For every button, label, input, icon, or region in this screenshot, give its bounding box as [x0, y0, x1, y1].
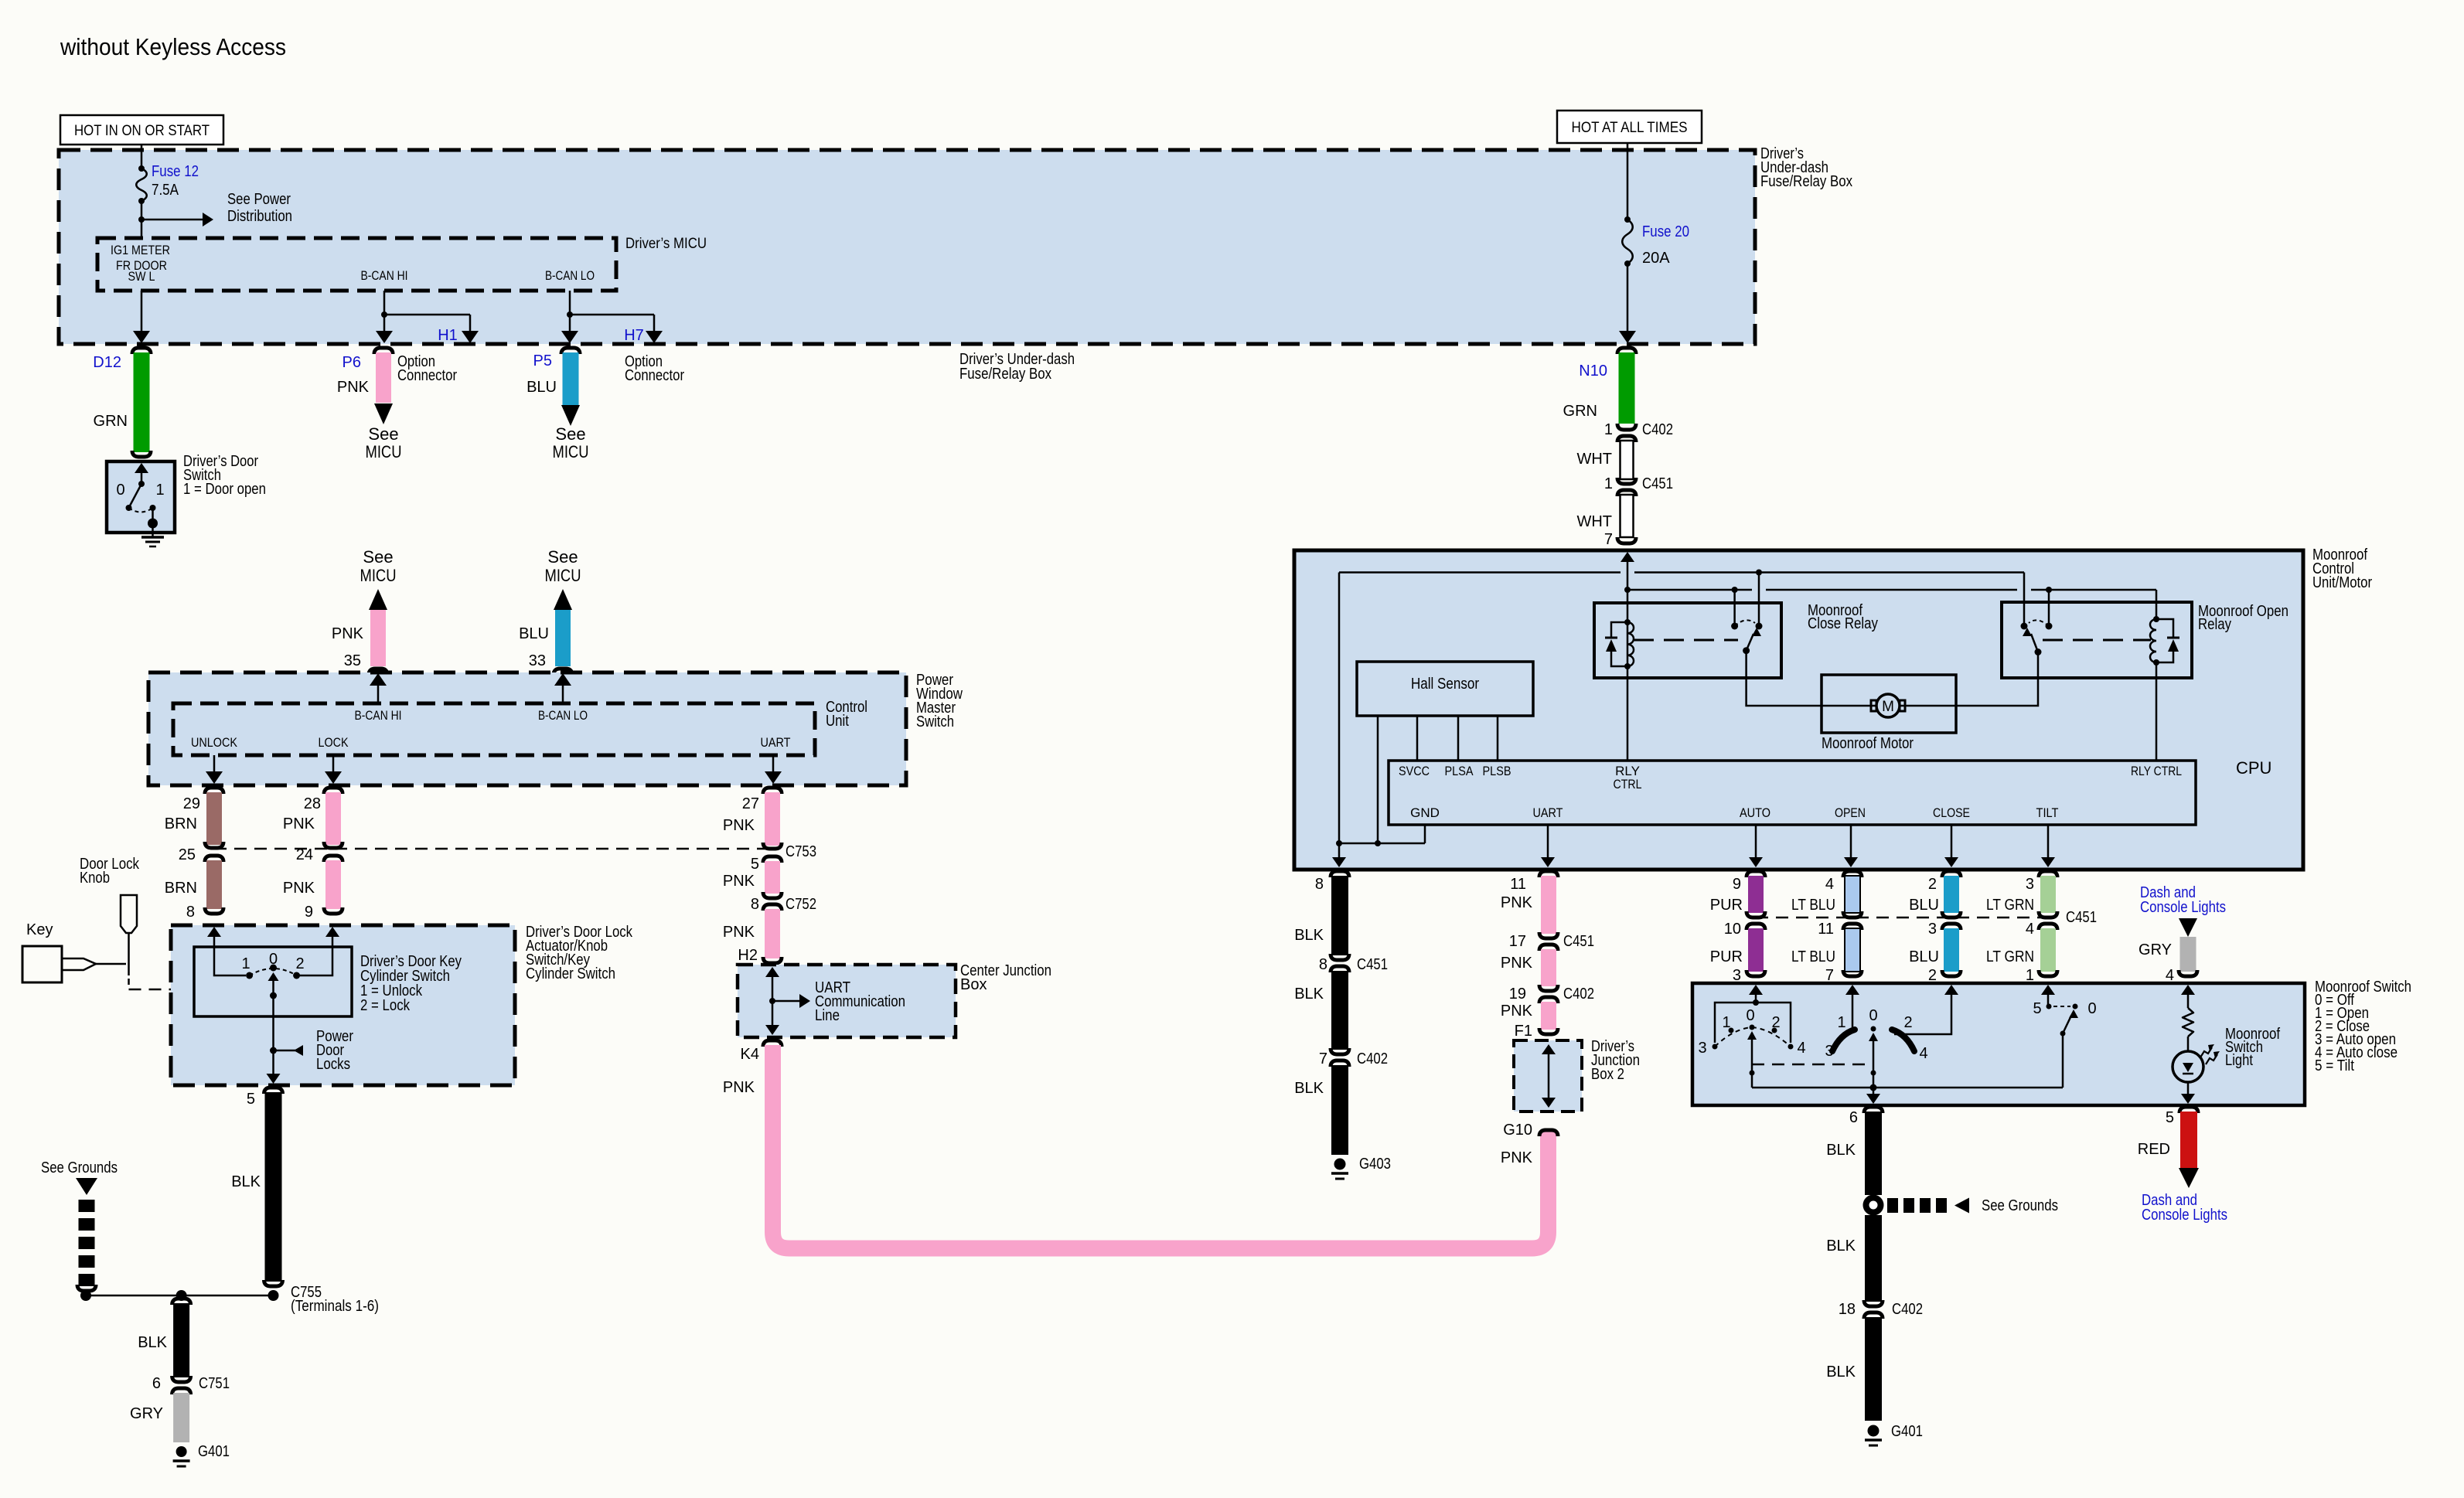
- switch AUTO wiper: [1747, 1031, 1757, 1040]
- hall sensor ground pin: [1377, 716, 1379, 843]
- svg-text:1 = Door open: 1 = Door open: [183, 481, 266, 498]
- connector C753 pin5: [763, 843, 782, 849]
- svg-text:19: 19: [1509, 986, 1526, 1003]
- svg-text:LT BLU: LT BLU: [1791, 897, 1835, 914]
- svg-text:PNK: PNK: [283, 880, 315, 897]
- svg-text:7.5A: 7.5A: [152, 182, 179, 199]
- svg-text:See Grounds: See Grounds: [1982, 1197, 2058, 1214]
- wire CLOSE exit pin 2: [1951, 825, 1953, 865]
- svg-text:1: 1: [2026, 967, 2034, 984]
- switch wiper bus: [1752, 1087, 2063, 1089]
- svg-text:BRN: BRN: [165, 815, 197, 832]
- moonroof switch light rays: [2200, 1047, 2212, 1057]
- svg-text:UNLOCK: UNLOCK: [191, 735, 238, 750]
- svg-text:RED: RED: [2138, 1141, 2170, 1158]
- svg-text:MICU: MICU: [545, 566, 581, 585]
- svg-text:PNK: PNK: [723, 1079, 755, 1096]
- wire key cylinder pin 8: [207, 927, 221, 937]
- CPU box: [1389, 761, 2196, 825]
- ground G403: [1334, 1159, 1346, 1170]
- svg-text:Hall Sensor: Hall Sensor: [1411, 676, 1479, 693]
- svg-text:PNK: PNK: [1501, 1003, 1533, 1020]
- svg-text:GND: GND: [1410, 805, 1440, 820]
- svg-text:BLU: BLU: [1909, 948, 1939, 965]
- wire see power distribution arrow: [141, 219, 203, 221]
- door switch internal wire: [135, 463, 148, 473]
- svg-text:Moonroof Motor: Moonroof Motor: [1822, 735, 1914, 752]
- moonroof close relay K1 box: [1594, 603, 1781, 678]
- svg-text:BLK: BLK: [231, 1173, 261, 1190]
- key mechanical dashed link: [129, 989, 270, 991]
- ground G401 (right): [1868, 1425, 1880, 1437]
- wire PNK pin24 to pin9: [325, 860, 341, 909]
- driver's under-dash fuse/relay box (dashed): [59, 150, 1755, 344]
- svg-text:N10: N10: [1579, 363, 1607, 380]
- svg-text:HOT AT ALL TIMES: HOT AT ALL TIMES: [1572, 120, 1688, 136]
- wire close relay common to motor: [1747, 651, 1822, 706]
- ground at door switch: [148, 519, 158, 529]
- wire B-CAN HI drop: [383, 291, 386, 315]
- svg-text:CLOSE: CLOSE: [1933, 805, 1970, 820]
- connector N10 with GRN wire: [1617, 348, 1636, 354]
- svg-text:IG1 METER: IG1 METER: [111, 243, 170, 257]
- svg-text:35: 35: [344, 652, 361, 669]
- hall sensor box: [1357, 662, 1533, 716]
- svg-text:BLK: BLK: [1826, 1364, 1856, 1381]
- svg-text:2: 2: [1928, 876, 1937, 893]
- svg-text:25: 25: [179, 846, 196, 863]
- connector C451 pin17 (pnk): [1539, 932, 1558, 938]
- svg-text:8: 8: [751, 896, 759, 913]
- svg-text:Console Lights: Console Lights: [2140, 899, 2226, 916]
- svg-text:RLY CTRL: RLY CTRL: [2131, 764, 2182, 778]
- svg-text:Switch: Switch: [916, 713, 954, 730]
- svg-text:2 = Lock: 2 = Lock: [360, 997, 411, 1014]
- svg-text:Fuse 12: Fuse 12: [152, 163, 199, 180]
- svg-text:B-CAN HI: B-CAN HI: [355, 708, 402, 723]
- svg-text:BLK: BLK: [138, 1334, 167, 1351]
- svg-text:LOCK: LOCK: [319, 735, 349, 750]
- wire GRY from dash lights: [2179, 918, 2197, 937]
- connector C402 pin19 (pnk): [1539, 985, 1558, 991]
- wire WHT segment 2: [1621, 495, 1634, 537]
- svg-text:8: 8: [186, 904, 195, 921]
- svg-text:See: See: [547, 547, 578, 567]
- driver's MICU box (dashed): [97, 238, 616, 291]
- svg-text:See: See: [555, 424, 585, 444]
- svg-text:P5: P5: [533, 352, 552, 369]
- svg-text:7: 7: [1319, 1050, 1327, 1067]
- center junction box internal wire: [772, 969, 774, 1033]
- connector P5 with BLU wire to MICU: [561, 348, 580, 354]
- connector pin7 moonroof control unit: [1617, 537, 1636, 543]
- svg-text:C402: C402: [1642, 421, 1673, 438]
- open relay mechanical link dashed: [2043, 639, 2151, 642]
- close relay coil: [1624, 619, 1631, 625]
- svg-text:BLK: BLK: [1294, 927, 1324, 944]
- control unit box (dashed): [173, 703, 815, 755]
- svg-text:0: 0: [116, 482, 124, 499]
- svg-text:LT GRN: LT GRN: [1986, 897, 2034, 914]
- wire fuse 20 to N10: [1627, 264, 1629, 341]
- wire OPEN exit pin 4: [1850, 825, 1852, 865]
- svg-text:K4: K4: [741, 1046, 759, 1063]
- wire B-CAN HI branch: [384, 314, 470, 316]
- svg-text:P6: P6: [343, 354, 361, 371]
- svg-text:11: 11: [1510, 876, 1526, 893]
- svg-text:5 = Tilt: 5 = Tilt: [2315, 1057, 2354, 1074]
- switch OPEN thick contact arc: [1832, 1030, 1855, 1051]
- hall sensor SVCC pin: [1416, 716, 1419, 761]
- svg-text:See: See: [368, 424, 398, 444]
- driver's door key cylinder switch box: [194, 947, 352, 1016]
- wire PNK C402 to F1: [1541, 1002, 1556, 1030]
- motor M symbol: [1822, 705, 1876, 707]
- moonroof open relay K2 box: [2002, 602, 2192, 678]
- svg-text:5: 5: [247, 1091, 255, 1108]
- fuse F12: [138, 165, 145, 172]
- wire B-CAN HI to pin 35: [377, 676, 380, 703]
- wire IG1 METER to D12: [141, 291, 143, 341]
- switch AUTO contacts: [1713, 1044, 1718, 1050]
- connector C451 pin4 (ltgrn): [2039, 911, 2057, 918]
- svg-text:See: See: [363, 547, 393, 567]
- svg-text:0: 0: [2087, 1000, 2096, 1017]
- wire WHT segment 1: [1621, 441, 1634, 479]
- svg-text:G401: G401: [1891, 1423, 1923, 1440]
- svg-text:Key: Key: [26, 921, 53, 938]
- wire open relay coil to CPU RLY CTRL: [2156, 662, 2158, 761]
- wire ground bus at C755: [86, 1295, 274, 1297]
- wire WHT entry to RLY CTRL: [1621, 552, 1634, 562]
- svg-text:17: 17: [1509, 933, 1526, 950]
- connector C451 pin11 (ltblu): [1843, 911, 1862, 918]
- svg-text:Fuse/Relay Box: Fuse/Relay Box: [959, 366, 1051, 383]
- svg-text:BLK: BLK: [1294, 1080, 1324, 1097]
- svg-text:GRN: GRN: [94, 413, 128, 430]
- node C755 junction: [268, 1290, 279, 1301]
- svg-text:PNK: PNK: [283, 815, 315, 832]
- svg-text:BLU: BLU: [519, 625, 549, 642]
- wire from HOT IN ON OR START to Fuse 12: [141, 145, 143, 169]
- door switch arm: [129, 484, 142, 508]
- svg-text:8: 8: [1319, 956, 1327, 973]
- svg-text:27: 27: [742, 795, 759, 812]
- svg-text:Locks: Locks: [316, 1056, 350, 1073]
- svg-text:Fuse/Relay Box: Fuse/Relay Box: [1760, 173, 1852, 190]
- switch TILT wiper: [2063, 1016, 2071, 1033]
- door lock knob symbol: [121, 895, 137, 933]
- svg-text:CTRL: CTRL: [1614, 777, 1642, 792]
- driver's door lock actuator box (dashed): [171, 925, 515, 1085]
- svg-text:7: 7: [1825, 967, 1834, 984]
- connector C451 pin8 (blk): [1331, 954, 1349, 960]
- connector C402 pin7 (blk): [1331, 1048, 1349, 1054]
- svg-text:G10: G10: [1503, 1122, 1532, 1139]
- hall sensor PLSB pin: [1497, 716, 1499, 761]
- open relay coil: [2153, 616, 2159, 622]
- svg-text:Close Relay: Close Relay: [1808, 615, 1878, 632]
- svg-text:PNK: PNK: [1501, 955, 1533, 972]
- svg-text:Knob: Knob: [80, 870, 110, 887]
- svg-text:8: 8: [1315, 876, 1324, 893]
- moonroof switch light resistor: [2187, 986, 2190, 1008]
- svg-text:LT GRN: LT GRN: [1986, 948, 2034, 965]
- svg-text:2: 2: [295, 955, 304, 972]
- svg-text:Relay: Relay: [2198, 616, 2231, 633]
- svg-text:1: 1: [1604, 421, 1613, 438]
- node coil feed junction: [1624, 587, 1631, 593]
- C451 dashed harness line (switch wires): [1756, 917, 2053, 919]
- svg-text:BLK: BLK: [1826, 1142, 1856, 1159]
- svg-text:7: 7: [1604, 531, 1613, 548]
- svg-text:3: 3: [1928, 921, 1937, 938]
- svg-text:C451: C451: [1642, 475, 1673, 492]
- wire BLU pin33 up arrow: [554, 589, 572, 610]
- svg-text:without Keyless Access: without Keyless Access: [60, 33, 286, 60]
- see grounds dashed wire (right): [1887, 1198, 1898, 1213]
- connector 25: [205, 842, 223, 848]
- wire to open relay coil: [2156, 590, 2158, 619]
- key cylinder contacts: [246, 972, 253, 979]
- HOT IN ON OR START box: [60, 115, 223, 145]
- svg-text:9: 9: [305, 904, 313, 921]
- switch CLOSE thick contact arc: [1892, 1030, 1914, 1051]
- svg-text:1: 1: [1837, 1014, 1845, 1031]
- svg-text:C451: C451: [1357, 956, 1388, 973]
- see grounds dashed wire (left): [76, 1178, 97, 1195]
- wire BLK see grounds to C402: [1865, 1215, 1882, 1302]
- svg-text:PUR: PUR: [1710, 897, 1743, 914]
- moonroof switch box: [1692, 983, 2305, 1105]
- dashed harness line 25-24-C753: [214, 848, 772, 850]
- svg-text:M: M: [1882, 699, 1894, 715]
- wire UART exit pin 11: [1547, 825, 1549, 865]
- svg-text:PNK: PNK: [723, 924, 755, 941]
- svg-text:5: 5: [2033, 1000, 2041, 1017]
- svg-text:10: 10: [1724, 921, 1741, 938]
- switch TILT contacts: [2047, 1004, 2052, 1009]
- svg-text:F1: F1: [1515, 1023, 1532, 1040]
- door switch dashed throw: [129, 508, 153, 512]
- wire RED pin5 to dash lights: [2179, 1107, 2198, 1113]
- wire BLK C402 to G403: [1331, 1065, 1348, 1155]
- wire UART pin: [772, 755, 775, 781]
- wire PUR pin10 to pin3: [1748, 928, 1764, 972]
- wire key cylinder pin 9: [325, 927, 339, 937]
- svg-text:Box: Box: [960, 976, 987, 993]
- svg-text:Light: Light: [2225, 1052, 2253, 1069]
- wire from HOT AT ALL TIMES: [1627, 143, 1629, 220]
- wire BLU pin3 to pin2: [1944, 928, 1959, 972]
- svg-text:LT BLU: LT BLU: [1791, 948, 1835, 965]
- switch TILT pin wire: [2041, 985, 2055, 995]
- switch OPEN pin wire: [1845, 985, 1859, 995]
- svg-text:C752: C752: [786, 896, 816, 913]
- wire BLK pin6 to see grounds: [1864, 1107, 1883, 1113]
- switch AUTO pin wire: [1749, 985, 1763, 995]
- door switch ground lead: [152, 508, 154, 519]
- svg-text:GRN: GRN: [1563, 403, 1597, 420]
- close relay diode D1: [1611, 622, 1627, 637]
- svg-text:Connector: Connector: [625, 367, 684, 384]
- svg-text:PNK: PNK: [723, 873, 755, 890]
- node open relay NO drop: [2046, 587, 2052, 593]
- switch output to pin6: [1873, 1088, 1875, 1101]
- wire GND exit pin 8: [1338, 843, 1341, 865]
- svg-text:20A: 20A: [1642, 250, 1670, 267]
- svg-text:Distribution: Distribution: [227, 208, 292, 225]
- hall sensor PLSA pin: [1457, 716, 1460, 761]
- svg-text:MICU: MICU: [553, 442, 589, 461]
- connector G10: [1539, 1130, 1558, 1136]
- svg-text:0: 0: [269, 951, 278, 968]
- svg-text:4: 4: [1825, 876, 1834, 893]
- moonroof switch light LED L1: [2173, 1051, 2203, 1082]
- svg-text:C753: C753: [786, 843, 816, 860]
- svg-text:BLU: BLU: [527, 379, 557, 396]
- svg-text:29: 29: [183, 795, 200, 812]
- svg-text:H2: H2: [738, 947, 758, 964]
- wire TILT exit pin 3: [2047, 825, 2050, 865]
- node close relay NC junction: [1756, 570, 1762, 576]
- wire fuse 12 to IG1 METER: [141, 201, 143, 238]
- svg-text:SVCC: SVCC: [1399, 764, 1430, 778]
- svg-text:BLK: BLK: [1826, 1238, 1856, 1255]
- svg-text:See Grounds: See Grounds: [41, 1159, 118, 1176]
- wire lamp to pin5: [2187, 1082, 2190, 1101]
- wire B-CAN LO branch: [570, 314, 654, 316]
- svg-text:4: 4: [2026, 921, 2034, 938]
- connector C402 pin18 (blk): [1864, 1300, 1883, 1306]
- svg-text:Fuse 20: Fuse 20: [1642, 223, 1689, 240]
- svg-text:BRN: BRN: [165, 880, 197, 897]
- connector 24: [324, 842, 343, 848]
- svg-text:Unit: Unit: [826, 713, 849, 730]
- svg-text:UART: UART: [761, 735, 791, 750]
- svg-text:Connector: Connector: [397, 367, 457, 384]
- svg-text:33: 33: [529, 652, 546, 669]
- connector C402 pin1: [1617, 424, 1636, 430]
- switch AUTO contact bracket: [1715, 1003, 1791, 1043]
- svg-text:5: 5: [751, 856, 759, 873]
- svg-text:PLSA: PLSA: [1445, 764, 1474, 778]
- wire B-CAN LO to pin 33: [562, 676, 564, 703]
- svg-text:(Terminals 1-6): (Terminals 1-6): [291, 1298, 379, 1315]
- connector C751 pin6: [172, 1376, 191, 1382]
- svg-text:C402: C402: [1563, 986, 1594, 1003]
- svg-text:4: 4: [2166, 967, 2174, 984]
- svg-text:UART: UART: [1533, 805, 1563, 820]
- svg-text:BLU: BLU: [1909, 897, 1939, 914]
- svg-text:C451: C451: [1563, 933, 1594, 950]
- open relay diode D2: [2156, 619, 2173, 637]
- open relay switch: [2021, 623, 2028, 630]
- svg-text:G403: G403: [1359, 1156, 1391, 1173]
- driver's junction box 2 (dashed): [1514, 1040, 1582, 1112]
- wire BRN pin25 to pin8: [206, 860, 222, 909]
- svg-text:PNK: PNK: [332, 625, 364, 642]
- wire AUTO exit pin 9: [1755, 825, 1757, 865]
- svg-text:1: 1: [1722, 1014, 1730, 1031]
- connector D12 with GRN wire: [132, 348, 151, 354]
- svg-text:2: 2: [1771, 1014, 1780, 1031]
- svg-text:GRY: GRY: [2139, 941, 2172, 958]
- svg-text:PNK: PNK: [337, 379, 370, 396]
- CPU GND stub: [1424, 825, 1426, 843]
- connector C451 pin1: [1617, 478, 1636, 484]
- svg-text:0: 0: [1869, 1007, 1877, 1024]
- svg-text:BLK: BLK: [1294, 986, 1324, 1003]
- svg-text:C451: C451: [2066, 909, 2097, 926]
- svg-text:TILT: TILT: [2036, 805, 2059, 820]
- svg-text:PNK: PNK: [1501, 894, 1533, 911]
- svg-text:H1: H1: [438, 327, 458, 344]
- svg-text:B-CAN LO: B-CAN LO: [545, 268, 595, 283]
- svg-text:4: 4: [1919, 1045, 1927, 1062]
- wire ground rail y740: [1339, 571, 1621, 574]
- svg-text:6: 6: [152, 1375, 161, 1392]
- switch CLOSE pin wire: [1894, 986, 1951, 1034]
- switch group2 wiper: [1869, 1033, 1878, 1041]
- see grounds ring terminal: [1863, 1195, 1884, 1216]
- svg-text:Box 2: Box 2: [1591, 1066, 1624, 1083]
- svg-text:AUTO: AUTO: [1740, 805, 1770, 820]
- svg-text:MICU: MICU: [366, 442, 402, 461]
- svg-text:B-CAN LO: B-CAN LO: [538, 708, 588, 723]
- svg-text:D12: D12: [93, 354, 121, 371]
- svg-text:1: 1: [1604, 475, 1613, 492]
- svg-text:See Power: See Power: [227, 191, 291, 208]
- node close relay NO drop: [1732, 587, 1738, 593]
- wire BLK C402 to G401: [1865, 1317, 1882, 1421]
- connector C752 pin8: [763, 892, 782, 898]
- wire LT GRN pin4 to pin1: [2040, 928, 2056, 972]
- connector C451 pin3 (blu): [1942, 911, 1961, 918]
- svg-text:1: 1: [241, 955, 250, 972]
- switch mechanical dashed link: [1752, 1064, 1873, 1066]
- wire power rail y763: [1627, 589, 1752, 591]
- wire motor to open relay common: [1956, 652, 2038, 706]
- svg-text:C402: C402: [1357, 1050, 1388, 1067]
- power window master switch box (dashed): [148, 672, 906, 785]
- svg-text:PUR: PUR: [1710, 948, 1743, 965]
- svg-text:Line: Line: [815, 1007, 840, 1024]
- wire BLK C451 to C402: [1331, 971, 1348, 1050]
- wire PNK C752 to H2: [765, 909, 780, 958]
- wire LOCK pin: [332, 755, 335, 781]
- close relay mechanical link dashed: [1634, 639, 1738, 642]
- switch group2 contact 0: [1871, 1026, 1876, 1032]
- svg-text:WHT: WHT: [1576, 513, 1612, 530]
- svg-text:MICU: MICU: [360, 566, 397, 585]
- node see power distribution junction: [138, 216, 145, 223]
- svg-text:4: 4: [1797, 1040, 1805, 1057]
- HOT AT ALL TIMES box: [1557, 111, 1702, 143]
- wire LT BLU pin11 to pin7: [1845, 928, 1860, 972]
- center junction box (dashed): [738, 965, 956, 1037]
- svg-text:OPEN: OPEN: [1835, 805, 1866, 820]
- wire UNLOCK pin: [213, 755, 216, 781]
- svg-text:Driver’s MICU: Driver’s MICU: [625, 236, 707, 252]
- svg-text:28: 28: [304, 795, 321, 812]
- svg-text:SW L: SW L: [128, 269, 155, 284]
- key cylinder wiper: [268, 972, 279, 981]
- svg-text:2: 2: [1928, 967, 1937, 984]
- svg-text:G401: G401: [198, 1443, 230, 1460]
- wire ground rail left drop: [1338, 573, 1341, 844]
- svg-text:18: 18: [1839, 1301, 1856, 1318]
